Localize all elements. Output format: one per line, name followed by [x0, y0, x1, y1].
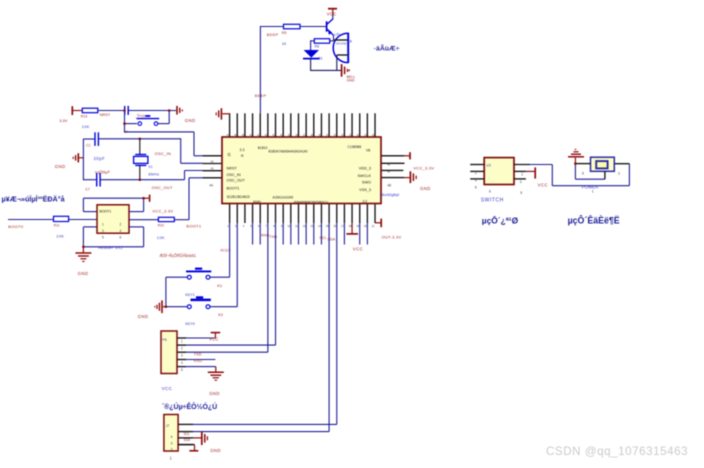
svg-text:X1: X1 [148, 165, 152, 169]
connector POWER jack [582, 157, 621, 193]
svg-text:46: 46 [387, 170, 390, 174]
svg-text:1: 1 [181, 339, 183, 343]
svg-text:10K: 10K [56, 234, 64, 239]
wire K1 right to MCU pin2 [210, 223, 230, 278]
svg-text:K2: K2 [218, 312, 224, 317]
svg-text:A15A11A10A9: A15A11A10A9 [273, 196, 294, 200]
svg-text:4: 4 [475, 178, 477, 182]
svg-text:GND: GND [210, 448, 221, 453]
svg-text:4: 4 [171, 435, 173, 439]
svg-text:45: 45 [387, 162, 390, 166]
wire reset button loop [123, 109, 170, 123]
wire crystal top [98, 138, 180, 141]
power VCC (switch) [526, 167, 548, 187]
svg-text:GND: GND [138, 314, 149, 319]
power VCC_3.3V (boot) [144, 195, 174, 214]
wire serial pin2 to MCU TXD [186, 223, 276, 346]
svg-text:40: 40 [280, 133, 283, 137]
svg-text:33: 33 [334, 133, 337, 137]
svg-text:47: 47 [227, 133, 230, 137]
svg-text:41: 41 [272, 133, 275, 137]
switch S1 reset button [135, 114, 159, 125]
svg-text:3.3: 3.3 [240, 148, 245, 152]
svg-text:OUT-3.3V: OUT-3.3V [382, 235, 402, 240]
wire Q1 collector to node [333, 35, 335, 40]
wire jack pin3 loop [574, 162, 605, 179]
power OUT-3.3V (bottom pin 21) [375, 219, 401, 240]
MCU pin name labels [227, 145, 372, 204]
svg-text:VCC_3.3V: VCC_3.3V [152, 208, 173, 213]
ground (oled pin1) [178, 445, 198, 451]
wire serial pin1 VCC [186, 337, 215, 339]
net label RXD TXD [261, 233, 277, 239]
svg-text:µçÔ´ÊäÈë¶Ë: µçÔ´ÊäÈë¶Ë [568, 215, 620, 226]
annotation serial port [162, 402, 217, 411]
svg-text:GND: GND [185, 118, 196, 123]
svg-text:K1: K1 [217, 283, 223, 288]
wire oled pin3 to MCU SCL [193, 223, 329, 432]
svg-text:B1B0A7A6A5A4A3A2A1A0: B1B0A7A6A5A4A3A2A1A0 [269, 149, 308, 153]
svg-text:BEEP: BEEP [267, 32, 279, 37]
svg-text:10K: 10K [82, 124, 90, 129]
svg-text:36: 36 [311, 133, 314, 137]
svg-text:2: 2 [120, 222, 122, 226]
svg-text:SWCLK: SWCLK [357, 174, 371, 178]
connector JP1 BOOT header [97, 205, 129, 250]
power VCC_3.3V (right pin) [404, 152, 434, 170]
wire bottom stub nets [253, 223, 368, 245]
svg-text:R11: R11 [54, 223, 60, 227]
svg-text:C1: C1 [86, 143, 91, 147]
svg-text:SCL: SCL [184, 432, 190, 436]
svg-text:2: 2 [475, 171, 477, 175]
svg-text:R10: R10 [158, 223, 164, 227]
MCU bottom pin stubs [230, 204, 375, 223]
wire R6 to D1 [310, 40, 312, 50]
svg-text:´®¿Úµ÷ÊÔ½Ó¿Ú: ´®¿Úµ÷ÊÔ½Ó¿Ú [162, 402, 217, 411]
svg-text:OSC_OUT: OSC_OUT [152, 185, 173, 190]
connector J7 display header [164, 415, 193, 461]
svg-text:46: 46 [234, 133, 237, 137]
connector P6 serial header [161, 331, 186, 374]
ground (reset) [177, 106, 196, 123]
svg-text:GND: GND [78, 271, 89, 276]
wire gnd rail [82, 139, 84, 180]
annotation power switch [482, 215, 519, 226]
wire BOOT0 net [8, 220, 54, 229]
ground (MCU top-left) [216, 108, 229, 119]
svg-text:GND: GND [420, 186, 431, 191]
power VCC (bottom pin 18) [346, 223, 363, 252]
MCU right pin stubs [382, 156, 405, 178]
svg-text:NRST: NRST [227, 166, 238, 170]
wire OSC_IN [155, 138, 203, 163]
svg-text:BEEP: BEEP [255, 93, 267, 98]
svg-text:R13: R13 [81, 114, 87, 118]
svg-text:5: 5 [520, 191, 522, 195]
svg-text:NRST: NRST [100, 113, 111, 117]
svg-text:44: 44 [209, 183, 213, 187]
svg-text:RXD: RXD [194, 358, 202, 363]
svg-text:µçÔ´¿ª¹Ø: µçÔ´¿ª¹Ø [482, 215, 519, 226]
svg-text:R6: R6 [315, 45, 320, 49]
resistor R13 [81, 108, 98, 129]
ground (boot) [75, 247, 91, 276]
svg-text:C13B9B8: C13B9B8 [348, 145, 362, 149]
ground (buzzer) [342, 64, 356, 83]
svg-text:32: 32 [341, 133, 344, 137]
svg-text:43: 43 [257, 133, 260, 137]
svg-text:B3B4B5B6B7B9TRBSCU: B3B4B5B6B7B9TRBSCU [294, 200, 328, 204]
ground (crystal) [55, 153, 84, 169]
ground (serial) [208, 367, 224, 396]
switch K2 [185, 297, 224, 326]
svg-text:44: 44 [249, 133, 252, 137]
annotation crystal [95, 170, 111, 175]
svg-text:37: 37 [303, 133, 306, 137]
svg-text:VB: VB [366, 148, 370, 152]
net label PB0/ADC [380, 193, 400, 197]
svg-text:J7: J7 [166, 424, 170, 428]
wire serial pin3 to MCU RXD [186, 223, 268, 357]
svg-text:2: 2 [171, 448, 173, 452]
svg-text:4: 4 [243, 224, 245, 228]
svg-text:R: R [241, 154, 244, 158]
resistor R10 [129, 217, 174, 240]
annotation buzzer [374, 43, 400, 52]
svg-text:10K: 10K [157, 235, 165, 240]
svg-text:4: 4 [120, 229, 122, 233]
svg-text:6: 6 [475, 186, 477, 190]
svg-text:45: 45 [242, 133, 245, 137]
svg-text:TXD: TXD [194, 351, 202, 356]
net label K nets [220, 248, 231, 252]
switch U3 power switch [470, 158, 530, 196]
switch K1 [185, 269, 223, 297]
svg-text:4: 4 [181, 361, 183, 365]
svg-text:1: 1 [169, 455, 172, 460]
MCU top pin numbers [227, 133, 376, 137]
svg-text:SOUND: SOUND [336, 41, 348, 45]
svg-text:34: 34 [326, 133, 329, 137]
wire cap to gnd [128, 110, 176, 112]
svg-text:B1B10: B1B10 [258, 146, 268, 150]
power VCC bar (buzzer) [327, 9, 337, 17]
resistor R11 [54, 216, 98, 238]
wire boot gnd loop [82, 227, 144, 248]
svg-text:35: 35 [318, 133, 321, 137]
capacitor C7 [83, 173, 100, 192]
svg-text:VCC: VCC [353, 246, 363, 251]
svg-text:BOOT0: BOOT0 [8, 224, 24, 229]
svg-text:POWER: POWER [582, 185, 599, 190]
transistor Q1 [327, 19, 334, 35]
svg-text:Header 3X2: Header 3X2 [98, 245, 123, 250]
svg-text:3.3V: 3.3V [59, 118, 68, 123]
wire oled pin4 to MCU SDA [193, 223, 337, 425]
svg-text:38: 38 [295, 133, 298, 137]
svg-text:U3: U3 [486, 164, 491, 168]
net label SCL SDA (oled) [184, 432, 191, 442]
svg-text:D1: D1 [318, 56, 323, 60]
svg-text:VCC_3.3V: VCC_3.3V [413, 165, 434, 170]
svg-text:VCC: VCC [209, 336, 219, 341]
svg-text:3: 3 [181, 354, 183, 358]
svg-text:R5: R5 [282, 31, 287, 35]
svg-text:P6: P6 [162, 338, 166, 342]
svg-text:BOOT1: BOOT1 [227, 186, 240, 190]
svg-text:3: 3 [102, 229, 104, 233]
svg-text:30: 30 [357, 133, 360, 137]
svg-text:3: 3 [582, 171, 585, 176]
op-amp U5 MCU body [222, 137, 381, 204]
wire crystal bottom [100, 178, 184, 181]
ground (MCU right) [404, 171, 431, 191]
resistor R5 [282, 24, 300, 46]
svg-text:OSC_IN: OSC_IN [227, 173, 241, 177]
svg-text:42: 42 [211, 159, 214, 163]
svg-text:SWITCH: SWITCH [481, 198, 504, 204]
svg-text:1: 1 [618, 171, 621, 176]
svg-text:GND: GND [347, 79, 355, 83]
svg-text:SDA: SDA [184, 438, 191, 442]
svg-text:1K: 1K [282, 42, 287, 46]
buzzer LS1 [333, 33, 352, 63]
svg-text:VCC: VCC [162, 386, 173, 391]
svg-text:3: 3 [171, 441, 173, 445]
svg-text:OSC_OUT: OSC_OUT [227, 179, 246, 183]
svg-text:5: 5 [181, 368, 183, 372]
watermark [546, 445, 688, 458]
svg-text:TXD: TXD [269, 235, 277, 239]
wire serial pin5 gnd [184, 366, 216, 368]
svg-text:GND: GND [209, 391, 220, 396]
svg-text:6: 6 [120, 236, 122, 240]
svg-text:VSS_3: VSS_3 [359, 188, 371, 192]
svg-text:KEY0: KEY0 [185, 322, 195, 326]
svg-text:LS1: LS1 [335, 33, 341, 37]
svg-text:VCC: VCC [327, 12, 337, 17]
resistor R6 [311, 39, 334, 49]
capacitor C4 [124, 106, 128, 134]
wire switch to jack [530, 164, 629, 186]
net label SCL SDA [319, 236, 335, 241]
svg-text:28: 28 [372, 133, 375, 137]
svg-text:C7: C7 [85, 188, 90, 192]
svg-text:29: 29 [364, 133, 367, 137]
wire Q1 base [300, 26, 327, 28]
wire BOOT1 to MCU [174, 178, 203, 229]
ground (oled pin2) [193, 432, 221, 453]
svg-text:6: 6 [489, 189, 491, 193]
wire K2 left [165, 305, 188, 308]
svg-text:11: 11 [295, 224, 298, 228]
svg-text:2: 2 [181, 346, 183, 350]
wire buzzer to gnd [310, 55, 341, 70]
svg-text:3.3: 3.3 [363, 199, 368, 203]
svg-text:BOOT1: BOOT1 [100, 209, 112, 213]
power VCC (serial) [209, 333, 220, 342]
MCU bottom pin numbers [227, 224, 375, 228]
diode D1 [303, 50, 323, 60]
svg-text:SWO: SWO [362, 181, 371, 185]
svg-text:5: 5 [102, 236, 104, 240]
MCU top pin stubs [230, 113, 375, 136]
svg-text:B: B [350, 40, 353, 44]
annotation power input [568, 215, 620, 226]
wire VCC to Q1 emitter [332, 15, 334, 20]
svg-text:KEY1: KEY1 [185, 293, 195, 297]
net label POWER [582, 185, 599, 190]
svg-text:BOOT1: BOOT1 [186, 223, 202, 228]
svg-text:48: 48 [387, 183, 391, 187]
ground (jack earth) [568, 149, 584, 163]
svg-text:µ¥Æ¬»úÏµÍ³ºËÐÄ°å: µ¥Æ¬»úÏµÍ³ºËÐÄ°å [2, 195, 66, 204]
svg-text:43: 43 [211, 167, 214, 171]
svg-text:1: 1 [102, 222, 104, 226]
svg-text:¾§ÕñÏµÍ³: ¾§ÕñÏµÍ³ [95, 170, 111, 175]
svg-text:1: 1 [592, 190, 594, 194]
svg-text:G: G [228, 152, 231, 157]
annotation boot select [159, 253, 196, 258]
MCU left pin stubs [203, 156, 222, 178]
svg-text:B12B13B14B15: B12B13B14B15 [227, 195, 250, 199]
svg-text:8MHz: 8MHz [148, 173, 159, 177]
MCU right pin numbers [387, 162, 391, 187]
svg-text:21: 21 [372, 224, 375, 228]
wire serial pin4 RXD [186, 358, 215, 363]
crystal X1 [134, 139, 160, 180]
svg-text:VCC: VCC [538, 183, 548, 188]
svg-text:SCL: SCL [319, 236, 326, 240]
svg-text:1: 1 [521, 172, 523, 176]
net label SWITCH [481, 198, 504, 204]
power 3.3V bar [59, 106, 82, 123]
svg-text:PBo/ADgBq0: PBo/ADgBq0 [380, 193, 400, 197]
svg-text:42: 42 [265, 133, 268, 137]
ground (buttons) [138, 300, 166, 318]
svg-text:·äÃùÆ÷: ·äÃùÆ÷ [374, 43, 400, 52]
wire NRST to MCU [123, 122, 203, 156]
wire OSC_OUT [152, 171, 203, 191]
svg-text:ÆôÍ¬Ñ¡ÔñÓÃboot1: ÆôÍ¬Ñ¡ÔñÓÃboot1 [159, 253, 196, 258]
svg-text:3: 3 [520, 180, 522, 184]
svg-text:31: 31 [349, 133, 352, 137]
wire D1 cathode down [310, 59, 312, 71]
MCU left pin numbers [209, 159, 214, 187]
svg-text:¸´Î»¼ü: ¸´Î»¼ü [135, 114, 145, 118]
svg-text:OSC_IN: OSC_IN [155, 151, 171, 156]
svg-text:20pF: 20pF [94, 156, 106, 161]
annotation system title [2, 195, 66, 204]
svg-text:CSDN @qq_1076315463: CSDN @qq_1076315463 [546, 445, 688, 458]
wire K2 right to MCU pin3 [210, 223, 237, 307]
wire NRST node [98, 111, 125, 118]
wire K1 left [166, 277, 187, 307]
capacitor C1 [83, 132, 105, 161]
svg-text:VDD_3: VDD_3 [359, 166, 371, 170]
net label VCC (serial) [162, 386, 173, 391]
wire BEEP net [255, 26, 284, 113]
svg-text:A6A0: A6A0 [253, 200, 261, 204]
svg-text:39: 39 [288, 133, 291, 137]
wire BOOT vcc loop [83, 197, 145, 212]
svg-text:GND: GND [55, 164, 66, 169]
